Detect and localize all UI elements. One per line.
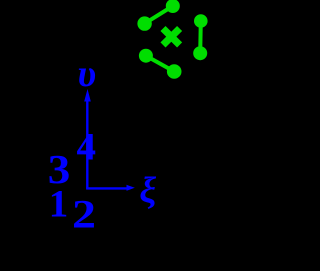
molecule atom A1	[137, 16, 151, 30]
collision cross mark	[163, 29, 180, 45]
molecule atom B1	[194, 14, 208, 28]
molecule atom C2	[167, 64, 182, 79]
svg-text:2: 2	[72, 191, 96, 236]
molecule bond C (bottom dumbbell)	[146, 56, 174, 72]
molecule bond B (right vertical dumbbell)	[198, 21, 203, 53]
svg-text:ξ: ξ	[139, 170, 156, 211]
arrowhead upsilon axis	[84, 89, 91, 102]
svg-text:υ: υ	[77, 53, 96, 95]
axis upsilon (vertical) shaft	[86, 99, 88, 189]
molecule atom A2	[166, 0, 180, 13]
molecule atom B2	[193, 46, 207, 60]
arrowhead xi axis	[127, 185, 135, 191]
svg-text:3: 3	[48, 146, 71, 192]
axis xi (horizontal) shaft	[86, 187, 127, 189]
molecule atom C1	[139, 49, 153, 63]
svg-text:4: 4	[77, 125, 97, 168]
molecule bond A (top-left dumbbell)	[145, 6, 173, 24]
